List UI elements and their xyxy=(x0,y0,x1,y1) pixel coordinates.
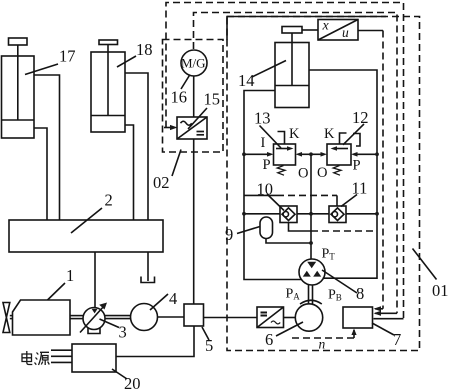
flywheel 4 xyxy=(131,304,158,331)
svg-text:I: I xyxy=(261,135,266,151)
inverter 6 xyxy=(257,307,284,328)
valve 12 O port arrow xyxy=(311,153,324,155)
svg-text:M/G: M/G xyxy=(181,56,206,71)
svg-text:u: u xyxy=(342,25,349,40)
wire: arrow into converter 15 xyxy=(164,127,174,129)
svg-text:3: 3 xyxy=(119,323,127,342)
wire: main electric line M/G to converter 15 xyxy=(193,76,195,117)
svg-text:6: 6 xyxy=(265,330,273,349)
wire: left working line A xyxy=(244,91,302,280)
valve 12 xyxy=(327,144,351,165)
shaft pump 3 to flywheel 4 xyxy=(105,315,131,317)
svg-text:O: O xyxy=(298,166,308,182)
converter 15 xyxy=(177,117,207,139)
wire: block 2 to pump 3 xyxy=(94,252,96,308)
valve 13 O port arrow xyxy=(299,153,311,155)
fan of motor 1 xyxy=(3,303,10,318)
check valve 10 xyxy=(280,206,297,223)
svg-text:K: K xyxy=(324,126,335,142)
svg-text:P: P xyxy=(263,157,271,173)
svg-text:5: 5 xyxy=(205,336,213,355)
svg-text:4: 4 xyxy=(169,289,177,308)
svg-text:7: 7 xyxy=(393,330,401,349)
cylinder 14 xyxy=(275,43,309,108)
cylinder 17 xyxy=(2,56,35,138)
wire: check valve line xyxy=(244,213,280,215)
support under block 2 xyxy=(147,252,149,281)
wire: three supply lines xyxy=(51,349,72,351)
wire: cylinder 17 rod-side pipe xyxy=(34,75,60,220)
wire: box 5 down to power box 20 xyxy=(116,326,194,357)
svg-text:1: 1 xyxy=(66,266,74,285)
svg-text:PT: PT xyxy=(322,247,336,262)
valve 12 K bracket xyxy=(340,133,347,144)
svg-text:K: K xyxy=(289,126,300,142)
wire: cylinder 17 cap-side pipe xyxy=(34,128,47,220)
wire: converter 15 down to box 5 xyxy=(193,139,195,304)
svg-text:16: 16 xyxy=(171,88,188,107)
svg-text:12: 12 xyxy=(352,108,369,127)
svg-text:01: 01 xyxy=(432,281,449,300)
wire: solid top edge of 01 box xyxy=(227,17,386,41)
clutch box 5 xyxy=(184,304,204,326)
inverter 6 symbol xyxy=(271,321,280,324)
电源 text drawn as glyphs xyxy=(22,351,49,365)
accumulator 9 xyxy=(260,217,273,239)
wire: arrow path B into controller 7 xyxy=(375,312,397,314)
converter 15 symbols xyxy=(181,121,192,125)
displacement sensor x/u xyxy=(318,20,358,41)
svg-text:15: 15 xyxy=(204,90,221,109)
pump 3: variable pump xyxy=(83,308,105,330)
power supply box 20 xyxy=(72,344,116,372)
wire: sensor signal line to controller 7 xyxy=(358,30,383,32)
shaft motor 1 to pump 3 xyxy=(70,315,84,317)
valve 12 P port arrow xyxy=(354,153,378,155)
wire: dashed control path B from M/G to controller 7 xyxy=(194,13,398,314)
wire: pilot line from valve 10 xyxy=(289,223,312,232)
shaft motor 6 to pump 8 xyxy=(308,285,310,304)
leader 12 xyxy=(343,124,364,145)
valve 13 K bracket xyxy=(278,132,285,145)
leader lines for labels xyxy=(25,64,58,75)
wire: cap to sensor xyxy=(302,29,318,31)
valve 13 P port arrow xyxy=(244,153,271,155)
box 01: dashed enclosure of hydraulic unit xyxy=(227,17,420,351)
wire: flywheel 4 to clutch 5 xyxy=(158,316,185,318)
cylinder 18 xyxy=(91,52,125,132)
svg-text:20: 20 xyxy=(124,374,141,390)
svg-text:P: P xyxy=(353,158,361,174)
wire: cylinder 18 cap-side pipe xyxy=(125,125,134,220)
controller 7 xyxy=(343,307,373,328)
svg-text:n: n xyxy=(319,337,326,352)
wire: pilot line to valve 11 xyxy=(244,194,277,196)
check valve 11 xyxy=(329,206,346,223)
wire: cylinder 18 rod-side pipe xyxy=(125,73,148,220)
junction dots xyxy=(242,152,246,156)
svg-text:11: 11 xyxy=(352,179,368,198)
valve 13 xyxy=(274,144,296,165)
block 2: platform xyxy=(9,220,163,252)
svg-text:PB: PB xyxy=(328,288,342,303)
svg-text:13: 13 xyxy=(254,109,271,128)
wire: tank riser PT xyxy=(310,154,312,259)
wire: right working line B xyxy=(309,70,377,278)
svg-text:14: 14 xyxy=(238,71,255,90)
svg-text:O: O xyxy=(317,165,327,181)
svg-text:PA: PA xyxy=(286,287,301,302)
leader 13 xyxy=(260,126,282,149)
svg-text:x: x xyxy=(322,19,330,34)
svg-text:2: 2 xyxy=(105,191,113,210)
wire: dashed control path A from controller 7 to converter 15 xyxy=(166,3,404,319)
motor/generator M/G 16 xyxy=(181,50,207,76)
valve 13 spring xyxy=(277,166,285,176)
wire: speed feedback n dashed xyxy=(292,337,354,339)
svg-text:02: 02 xyxy=(153,173,170,192)
wire: box 5 to inverter 6 xyxy=(204,317,258,319)
valve 12 spring xyxy=(333,166,341,176)
box 02: dashed enclosure of electric unit xyxy=(163,40,224,153)
coupling arc xyxy=(300,300,322,304)
svg-text:18: 18 xyxy=(136,40,153,59)
svg-text:9: 9 xyxy=(225,225,233,244)
svg-text:17: 17 xyxy=(59,47,76,66)
pump 8 xyxy=(299,259,325,285)
wire: path A into controller 7 xyxy=(374,318,404,320)
svg-text:8: 8 xyxy=(356,284,364,303)
wire: inverter to motor 6 xyxy=(284,317,296,319)
svg-text:10: 10 xyxy=(257,180,274,199)
motor 1 xyxy=(13,300,71,335)
electric motor 6 xyxy=(295,304,322,331)
